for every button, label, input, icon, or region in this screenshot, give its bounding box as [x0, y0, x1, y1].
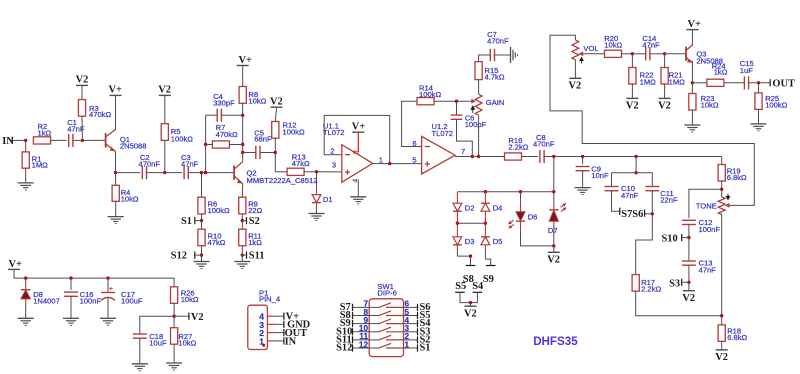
- op-amp U1.1: [342, 145, 373, 183]
- capacitor C6: [456, 101, 458, 115]
- wire: [147, 172, 165, 174]
- svg-text:1MΩ: 1MΩ: [669, 78, 686, 87]
- ground: [751, 123, 767, 125]
- svg-text:V+: V+: [109, 85, 123, 96]
- diode D5: [484, 223, 486, 237]
- resistor R24: [707, 79, 724, 86]
- port S9: [486, 265, 496, 267]
- node tone top: [720, 188, 723, 191]
- svg-text:1MΩ: 1MΩ: [32, 161, 49, 170]
- resistor R18: [718, 325, 725, 341]
- svg-text:S12: S12: [171, 251, 187, 262]
- svg-text:100nF: 100nF: [699, 225, 721, 234]
- ground: [63, 317, 79, 319]
- power V+ Q1: [110, 94, 122, 96]
- resistor R12: [275, 107, 276, 121]
- ground: [575, 187, 591, 189]
- wire: [201, 214, 203, 221]
- node D7 top: [552, 190, 555, 193]
- potentiometer GAIN: [475, 94, 482, 115]
- wire C6 to output: [457, 119, 473, 156]
- svg-text:S2: S2: [249, 216, 260, 227]
- wire D6 bottom: [520, 221, 522, 229]
- svg-text:OUT: OUT: [772, 79, 795, 90]
- node gain drop: [477, 155, 480, 158]
- resistor R4: [115, 173, 117, 186]
- svg-text:V2: V2: [76, 74, 89, 85]
- svg-text:S10: S10: [662, 233, 678, 244]
- ground: [309, 213, 325, 215]
- node branch: [634, 171, 637, 174]
- node R7 left: [204, 143, 207, 146]
- capacitor C1: [68, 134, 70, 147]
- svg-text:1MΩ: 1MΩ: [640, 78, 657, 87]
- power V2 above R12: [271, 106, 283, 108]
- svg-text:S5: S5: [455, 281, 466, 292]
- wire: [749, 82, 771, 84]
- node C6 drop: [471, 155, 474, 158]
- svg-text:3: 3: [332, 161, 336, 170]
- wire: [165, 172, 182, 174]
- node S10: [687, 236, 690, 239]
- wire feedback drop: [205, 145, 207, 173]
- svg-text:S1: S1: [181, 216, 192, 227]
- port S7: [619, 208, 621, 215]
- wire: [241, 246, 243, 262]
- LED D6: [520, 192, 522, 203]
- resistor R7: [212, 141, 229, 148]
- wire S5 S4 join: [460, 292, 477, 302]
- wire main row: [544, 156, 722, 158]
- svg-text:47nF: 47nF: [621, 191, 639, 200]
- pin 1 dot: [262, 344, 265, 347]
- svg-text:VOL: VOL: [583, 44, 598, 53]
- capacitor C10: [611, 173, 613, 187]
- svg-text:100kΩ: 100kΩ: [419, 90, 441, 99]
- ground: [684, 124, 700, 126]
- wire tone branch: [635, 157, 637, 173]
- wire feedback U1.1: [324, 115, 390, 163]
- node S12: [200, 253, 203, 256]
- wire: [241, 214, 243, 221]
- node R18 top: [720, 314, 723, 317]
- node R5 bottom: [163, 171, 166, 174]
- svg-text:V+: V+: [239, 55, 253, 66]
- svg-text:S6: S6: [632, 209, 643, 220]
- capacitor C15: [743, 76, 745, 89]
- potentiometer TONE: [718, 197, 725, 215]
- resistor R14: [417, 98, 434, 105]
- port S11: [246, 252, 248, 259]
- resistor R8: [242, 66, 244, 87]
- svg-text:47nF: 47nF: [181, 159, 199, 168]
- power V2 below R21: [659, 97, 671, 99]
- power V2 rail top: [76, 84, 88, 86]
- svg-text:1N4007: 1N4007: [33, 297, 60, 306]
- node C5 left: [241, 151, 244, 154]
- capacitor C16: [70, 278, 72, 290]
- node input junction: [24, 139, 27, 142]
- vol wiper arrow: [579, 51, 584, 56]
- node D3 top: [456, 222, 459, 225]
- wire: [582, 171, 584, 188]
- wire clip mid rail: [457, 222, 485, 224]
- node clip drop: [552, 155, 555, 158]
- wire main to R19: [721, 157, 723, 165]
- svg-text:1kΩ: 1kΩ: [248, 238, 262, 247]
- node OUT: [757, 81, 760, 84]
- svg-text:12: 12: [359, 340, 369, 349]
- LED D7 arrows: [558, 202, 570, 213]
- wire: [82, 139, 105, 141]
- wire S8 stub: [457, 256, 470, 265]
- resistor R2: [33, 137, 50, 144]
- capacitor C17 electrolytic: [107, 278, 109, 292]
- svg-text:47nF: 47nF: [699, 265, 717, 274]
- wire C4 drop: [205, 115, 207, 144]
- resistor R17: [632, 275, 639, 292]
- svg-text:V2: V2: [547, 255, 560, 266]
- resistor R27: [173, 316, 175, 328]
- svg-text:D4: D4: [493, 204, 503, 213]
- svg-text:V2: V2: [682, 293, 695, 304]
- resistor R9: [239, 197, 246, 214]
- node D6 top: [519, 190, 522, 193]
- svg-text:10kΩ: 10kΩ: [178, 339, 196, 348]
- wire: [724, 82, 745, 84]
- svg-text:D3: D3: [465, 237, 475, 246]
- svg-text:470nF: 470nF: [487, 37, 509, 46]
- resistor R1: [25, 140, 27, 152]
- wire feedback U1.2: [402, 101, 422, 146]
- svg-text:IN: IN: [2, 136, 14, 147]
- svg-text:1kΩ: 1kΩ: [714, 68, 728, 77]
- LED D7: [553, 192, 555, 202]
- tone wiper arrow: [725, 203, 730, 208]
- node R22 top: [631, 52, 634, 55]
- capacitor C11: [651, 173, 653, 187]
- svg-text:7: 7: [461, 147, 465, 156]
- svg-text:D1: D1: [323, 195, 333, 204]
- port OUT: [769, 79, 771, 86]
- svg-text:10uF: 10uF: [149, 339, 167, 348]
- wire collector Q3: [691, 30, 693, 45]
- svg-text:47kΩ: 47kΩ: [292, 159, 310, 168]
- svg-text:TONE: TONE: [696, 201, 717, 210]
- port S10: [681, 234, 683, 241]
- svg-text:+: +: [109, 284, 114, 293]
- svg-text:8: 8: [353, 150, 360, 154]
- svg-text:DIP-6: DIP-6: [377, 289, 396, 298]
- wire gain bottom: [478, 115, 480, 156]
- resistor R21: [664, 54, 666, 68]
- node R7 right: [241, 143, 244, 146]
- svg-text:2.2kΩ: 2.2kΩ: [508, 143, 528, 152]
- port S3: [681, 279, 683, 286]
- wire output row: [455, 156, 504, 158]
- svg-text:V2: V2: [270, 97, 283, 108]
- wire: [139, 338, 141, 364]
- node D7 bottom: [552, 244, 555, 247]
- ground: [100, 317, 116, 319]
- power V2 above R5: [159, 94, 171, 96]
- port S2: [246, 217, 248, 224]
- port S12: [194, 252, 196, 259]
- svg-text:D7: D7: [548, 226, 558, 235]
- svg-text:22nF: 22nF: [660, 196, 678, 205]
- node feedback drop: [204, 171, 207, 174]
- svg-text:S3: S3: [669, 278, 680, 289]
- resistor R10: [201, 221, 203, 230]
- wire: [51, 139, 67, 141]
- wire: [73, 139, 83, 141]
- ground rotated: [510, 47, 512, 63]
- resistor R11: [241, 221, 243, 230]
- svg-text:DHFS35: DHFS35: [533, 335, 578, 348]
- wire tone bottom: [721, 215, 723, 316]
- node R21 top: [663, 52, 666, 55]
- resistor R15: [478, 80, 480, 95]
- svg-text:V2: V2: [626, 101, 639, 112]
- ground: [350, 196, 366, 198]
- svg-text:2.2kΩ: 2.2kΩ: [641, 285, 661, 294]
- svg-text:V2: V2: [158, 85, 171, 96]
- power V2 below R18: [716, 349, 728, 351]
- svg-text:330pF: 330pF: [213, 99, 235, 108]
- ground: [194, 261, 210, 263]
- svg-text:S1: S1: [420, 343, 431, 354]
- svg-text:10nF: 10nF: [591, 171, 609, 180]
- wire output U1.1: [373, 163, 422, 165]
- capacitor C2: [141, 166, 143, 179]
- capacitor C4: [206, 114, 218, 116]
- wire tone wiper to vol: [550, 35, 754, 205]
- gain pot annotation arrow: [471, 106, 474, 113]
- power V2 below R22: [626, 97, 638, 99]
- diode D4: [484, 192, 486, 204]
- resistor R5: [164, 95, 166, 123]
- ground: [18, 182, 34, 184]
- resistor R23: [691, 83, 693, 94]
- svg-text:100uF: 100uF: [121, 297, 143, 306]
- transistor Q1: [105, 133, 107, 147]
- svg-text:10kΩ: 10kΩ: [701, 100, 719, 109]
- svg-text:V2: V2: [658, 101, 671, 112]
- node D4 top: [484, 190, 487, 193]
- svg-text:100kΩ: 100kΩ: [171, 135, 193, 144]
- diode D3: [456, 223, 458, 237]
- wire base Q3: [665, 53, 686, 55]
- svg-text:S7: S7: [621, 209, 632, 220]
- port S8: [466, 265, 476, 267]
- wire: [70, 296, 72, 318]
- ground: [166, 362, 182, 364]
- svg-text:470kΩ: 470kΩ: [216, 130, 238, 139]
- svg-text:68nF: 68nF: [254, 135, 272, 144]
- wire: [688, 225, 690, 238]
- svg-text:V+: V+: [352, 121, 366, 132]
- resistor R6: [201, 173, 203, 198]
- wire: [201, 246, 203, 262]
- resistor R13: [287, 168, 304, 175]
- wire: [721, 181, 723, 197]
- svg-text:100kΩ: 100kΩ: [765, 101, 787, 110]
- wire emitter Q3: [691, 61, 693, 83]
- power V2 below VOL: [569, 77, 581, 79]
- wire branch rail: [612, 172, 653, 174]
- wire: [304, 171, 342, 173]
- potentiometer VOL: [572, 40, 579, 60]
- resistor R16: [505, 153, 522, 160]
- capacitor C7: [479, 55, 491, 62]
- svg-text:V2: V2: [464, 308, 477, 319]
- wire V+ rail: [14, 269, 174, 286]
- svg-text:100kΩ: 100kΩ: [208, 206, 230, 215]
- svg-text:100nF: 100nF: [80, 297, 102, 306]
- svg-text:10kΩ: 10kΩ: [248, 97, 266, 106]
- diode D1: [316, 172, 318, 186]
- wire C12 branch: [689, 189, 722, 218]
- svg-text:470kΩ: 470kΩ: [89, 110, 111, 119]
- node D8: [24, 276, 27, 279]
- svg-text:10kΩ: 10kΩ: [181, 295, 199, 304]
- LED D6 arrows: [505, 219, 517, 230]
- ground: [108, 216, 124, 218]
- node S2: [241, 219, 244, 222]
- tone annotation arrow: [726, 194, 729, 200]
- wire emitter Q2: [241, 184, 243, 198]
- transistor Q3: [685, 47, 687, 61]
- svg-text:47kΩ: 47kΩ: [208, 238, 226, 247]
- svg-text:S9: S9: [483, 274, 494, 285]
- port IN: [11, 137, 13, 144]
- svg-text:100kΩ: 100kΩ: [283, 128, 305, 137]
- resistor R26: [171, 287, 178, 304]
- svg-text:V+: V+: [688, 19, 702, 30]
- svg-text:1kΩ: 1kΩ: [38, 129, 52, 138]
- resistor R22: [631, 54, 633, 68]
- wire: [434, 100, 472, 102]
- node S1: [200, 219, 203, 222]
- svg-text:MMBT2222A_C8512: MMBT2222A_C8512: [247, 176, 318, 185]
- resistor R19: [718, 165, 725, 182]
- wire collector Q2: [242, 103, 244, 161]
- svg-text:5: 5: [412, 156, 416, 165]
- node V2 join: [469, 301, 472, 304]
- resistor R3: [81, 85, 83, 99]
- wire: [522, 156, 538, 158]
- op-amp U1.2: [422, 136, 456, 174]
- capacitor C3: [183, 166, 185, 179]
- wire: [692, 82, 707, 84]
- ground: [18, 317, 34, 319]
- wire: [13, 139, 26, 141]
- node C9: [581, 155, 584, 158]
- port V2 tap: [174, 315, 189, 317]
- svg-text:10kΩ: 10kΩ: [604, 40, 622, 49]
- diode D2: [456, 192, 458, 204]
- node C16: [69, 276, 72, 279]
- wire: [274, 153, 276, 172]
- capacitor C9: [582, 157, 584, 165]
- wiper arrow GAIN: [471, 99, 476, 104]
- svg-text:TL072: TL072: [432, 129, 454, 138]
- wire C11 to R17: [651, 191, 653, 214]
- svg-text:TL072: TL072: [323, 128, 345, 137]
- node emitter Q3: [691, 81, 694, 84]
- power V2 below LEDs: [553, 246, 555, 252]
- node C4 right: [241, 114, 244, 117]
- wire to diode network: [553, 157, 555, 192]
- svg-text:V2: V2: [715, 352, 728, 363]
- transistor Q2: [233, 165, 235, 179]
- svg-text:S4: S4: [472, 281, 483, 292]
- node S8: [469, 254, 472, 257]
- svg-text:47nF: 47nF: [642, 40, 660, 49]
- node D5 top: [484, 222, 487, 225]
- node R6 top: [200, 171, 203, 174]
- node C11 bottom: [651, 212, 654, 215]
- ground: [234, 261, 250, 263]
- svg-text:100pF: 100pF: [465, 120, 487, 129]
- resistor R20: [605, 50, 622, 57]
- svg-text:D2: D2: [465, 204, 475, 213]
- capacitor C13: [688, 238, 690, 261]
- node base Q1: [81, 139, 84, 142]
- svg-text:1uF: 1uF: [740, 66, 753, 75]
- wire clip top rail: [457, 191, 553, 193]
- node tone drop: [634, 155, 637, 158]
- power V2 below C13: [688, 282, 690, 290]
- wire S9 stub: [485, 259, 490, 265]
- svg-text:S12: S12: [336, 343, 352, 354]
- svg-text:6.8kΩ: 6.8kΩ: [727, 333, 747, 342]
- node C5 R12: [274, 151, 277, 154]
- wire C18 branch: [140, 316, 174, 334]
- wire: [622, 53, 633, 55]
- svg-text:D5: D5: [493, 237, 503, 246]
- svg-text:D6: D6: [528, 212, 538, 221]
- wire: [188, 172, 234, 174]
- svg-text:PIN_4: PIN_4: [259, 295, 280, 304]
- svg-text:V2: V2: [191, 312, 204, 323]
- node pin3: [315, 170, 318, 173]
- svg-text:6.8kΩ: 6.8kΩ: [727, 173, 747, 182]
- wire collector Q1: [115, 95, 117, 129]
- power V+ Q3: [686, 29, 698, 31]
- power V+ U1.1: [352, 131, 364, 133]
- diode D8: [25, 278, 27, 283]
- node C17: [106, 276, 109, 279]
- capacitor C12: [682, 219, 696, 221]
- resistor R25: [758, 83, 760, 93]
- node S3: [687, 281, 690, 284]
- svg-text:2N5088: 2N5088: [120, 142, 147, 151]
- svg-text:470nF: 470nF: [139, 159, 161, 168]
- wire R17 to R18: [636, 291, 722, 316]
- node output U1.1: [388, 162, 391, 165]
- svg-text:V+: V+: [9, 259, 23, 270]
- wire: [116, 172, 141, 174]
- port S1: [194, 217, 196, 224]
- ground: [132, 363, 148, 365]
- capacitor C14: [632, 53, 645, 55]
- svg-text:V2: V2: [569, 80, 582, 91]
- wire emitter Q1: [115, 152, 117, 173]
- power V+ above R8: [237, 65, 249, 67]
- node V2 tap: [172, 315, 175, 318]
- node emitter Q1: [114, 171, 117, 174]
